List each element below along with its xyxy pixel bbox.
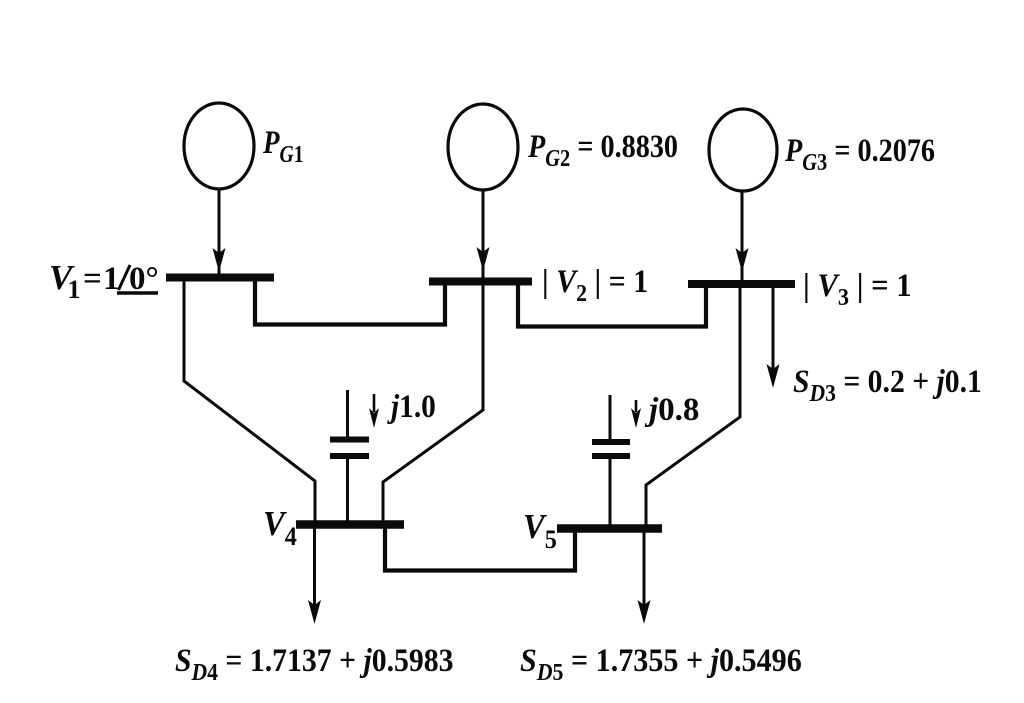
- arrow for j0.8: [635, 400, 638, 412]
- generator G3: [709, 109, 777, 191]
- label V5: [523, 508, 557, 554]
- svg-text:j1.0: j1.0: [386, 387, 436, 424]
- label P_G3 = 0.2076: [784, 132, 935, 175]
- label V4: [263, 505, 297, 551]
- label j0.8: [644, 392, 699, 428]
- line bus1-bus4: [184, 279, 315, 524]
- bus 2: [429, 278, 532, 286]
- svg-text:| V3​ | = 1: | V3​ | = 1: [803, 267, 912, 311]
- label V1 = 1 angle 0deg: [49, 258, 159, 304]
- capacitor j0.8 at bus 5: [592, 395, 630, 526]
- capacitor j1.0 at bus 4: [330, 390, 369, 522]
- svg-text:PG3​ = 0.2076: PG3​ = 0.2076: [784, 132, 935, 175]
- load arrow bus 4: [313, 528, 316, 616]
- svg-text:SD5​ = 1.7355 + j0.5496: SD5​ = 1.7355 + j0.5496: [520, 642, 802, 685]
- label S_D5 = 1.7355 + j0.5496: [520, 642, 802, 685]
- arrow for j1.0: [373, 394, 376, 412]
- generator G1: [184, 103, 254, 189]
- wire G2 lead: [482, 190, 485, 280]
- bus 1: [166, 274, 274, 282]
- line bus4-bus5: [385, 527, 575, 571]
- label |V2| = 1: [542, 263, 648, 307]
- line bus2-bus3: [518, 283, 706, 327]
- svg-text:SD4​ = 1.7137 + j0.5983: SD4​ = 1.7137 + j0.5983: [175, 642, 454, 686]
- load arrow bus 5: [643, 532, 646, 616]
- bus 5: [557, 524, 662, 533]
- svg-text:SD3​ = 0.2 + j0.1: SD3​ = 0.2 + j0.1: [793, 363, 982, 407]
- svg-text:V5: V5: [523, 508, 557, 554]
- label P_G1: [262, 123, 303, 167]
- bus 4: [296, 520, 404, 529]
- svg-text:PG1​: PG1​: [262, 123, 303, 167]
- svg-text:1: 1: [68, 275, 81, 304]
- label S_D4 = 1.7137 + j0.5983: [175, 642, 454, 686]
- label j1.0: [386, 387, 436, 424]
- label P_G2 = 0.8830: [527, 128, 678, 171]
- line bus2-bus4: [383, 283, 483, 524]
- line bus3-bus5: [646, 285, 740, 528]
- svg-text:| V2​ | = 1: | V2​ | = 1: [542, 263, 648, 307]
- label S_D3 = 0.2 + j0.1: [793, 363, 982, 407]
- line bus1-bus2: [255, 279, 445, 325]
- wire G1 lead: [218, 189, 221, 276]
- svg-text:PG2​ = 0.8830: PG2​ = 0.8830: [527, 128, 678, 171]
- wire G3 lead: [741, 191, 744, 282]
- svg-text:V4: V4: [263, 505, 297, 551]
- label |V3| = 1: [803, 267, 912, 311]
- svg-text:=: =: [83, 261, 102, 297]
- svg-text:j0.8: j0.8: [644, 392, 699, 428]
- generator G2: [448, 104, 518, 190]
- load arrow bus 3: [772, 288, 775, 380]
- bus 3: [688, 280, 795, 288]
